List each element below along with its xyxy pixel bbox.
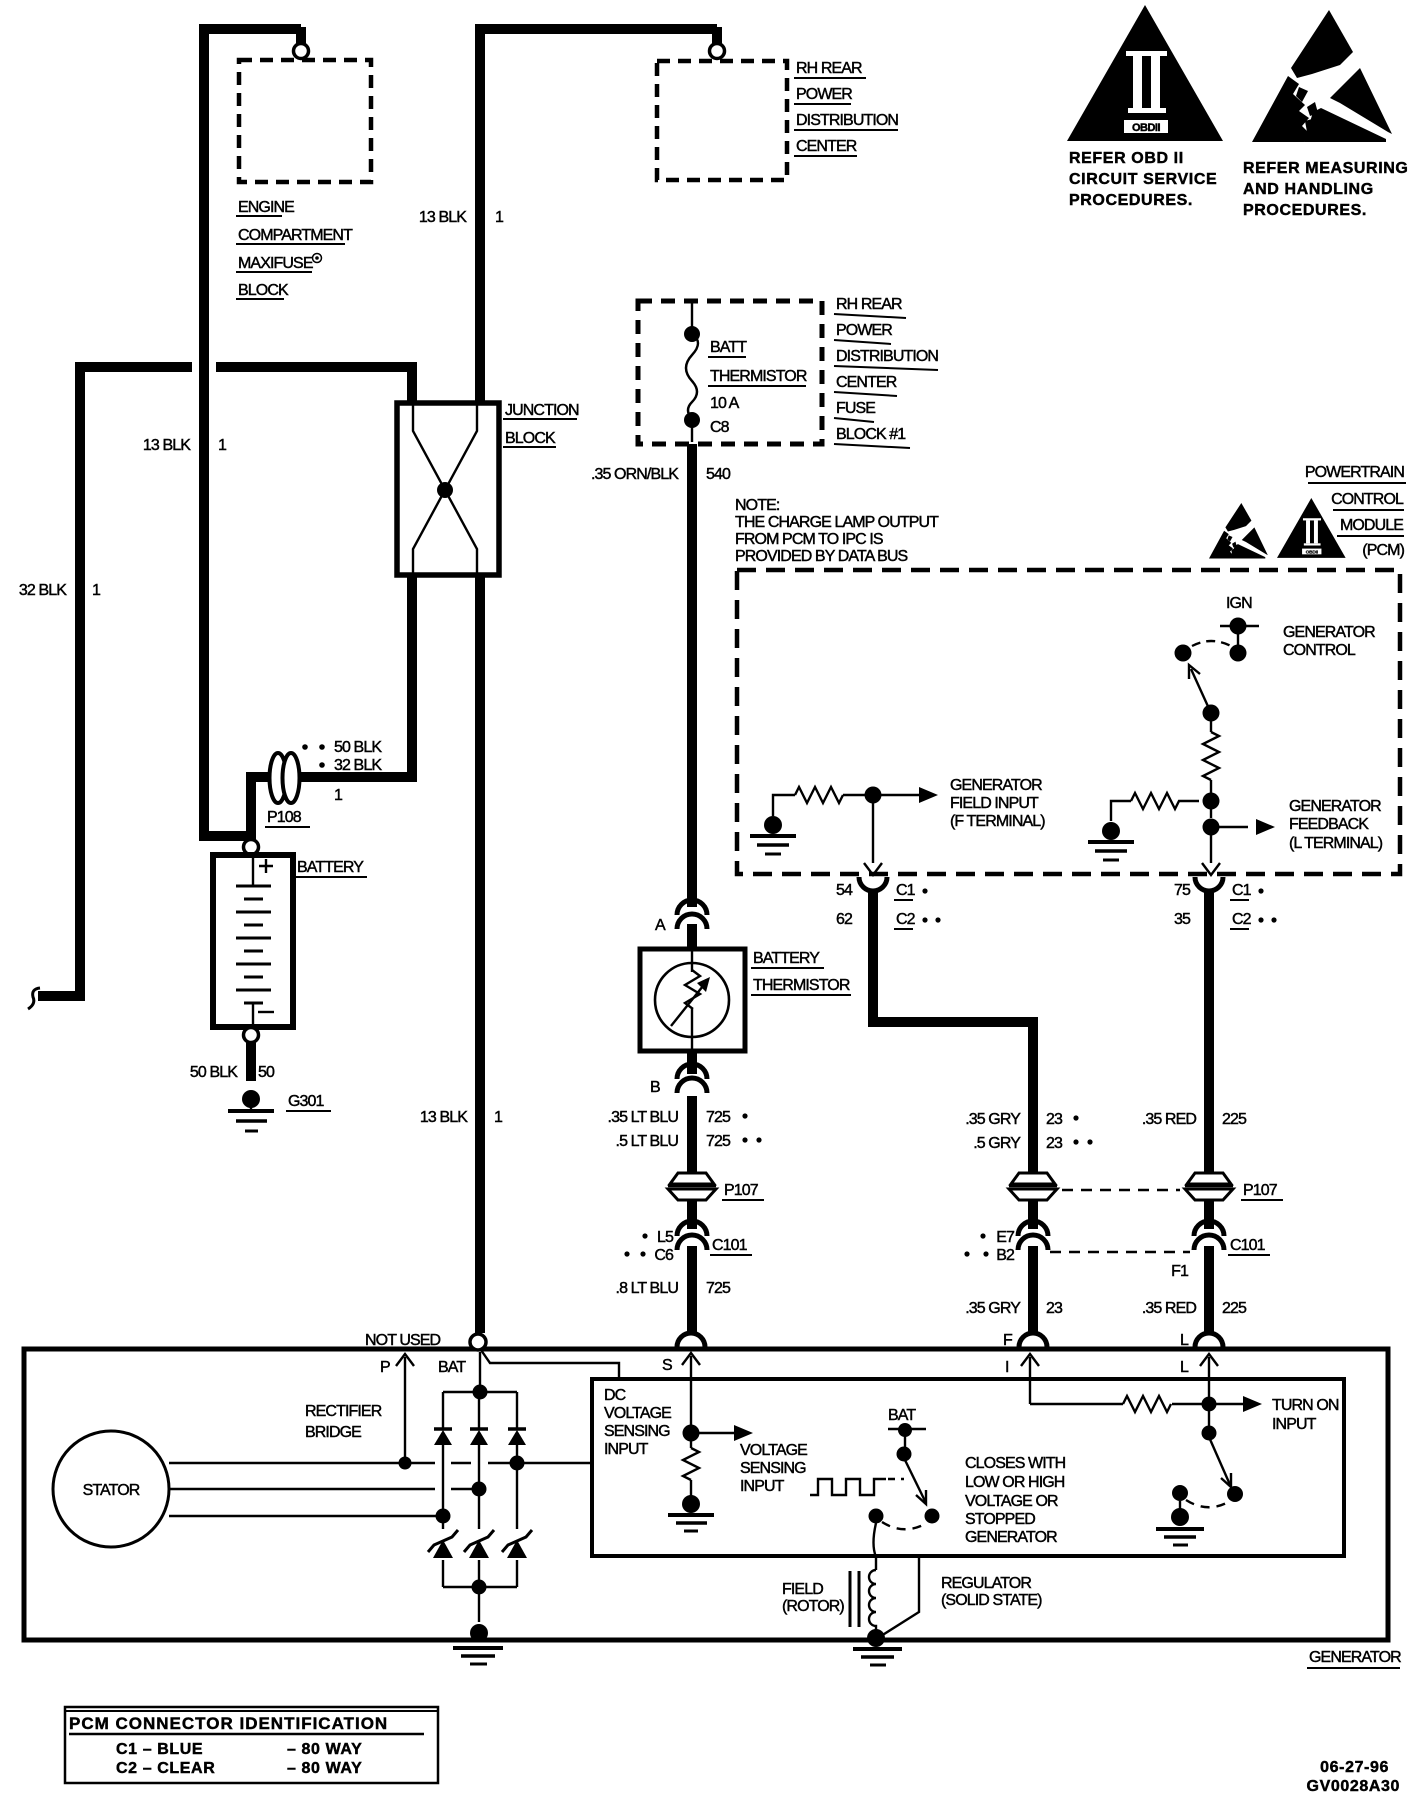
svg-text:FUSE: FUSE: [836, 400, 875, 417]
svg-text:DISTRIBUTION: DISTRIBUTION: [796, 112, 898, 129]
svg-text:C2: C2: [1232, 911, 1252, 928]
svg-text:725: 725: [706, 1133, 731, 1150]
svg-text:GENERATOR: GENERATOR: [950, 777, 1042, 794]
svg-text:BLOCK #1: BLOCK #1: [836, 426, 906, 443]
svg-text:JUNCTION: JUNCTION: [505, 402, 579, 419]
svg-text:C1 – BLUE: C1 – BLUE: [116, 1741, 203, 1758]
svg-text:CONTROL: CONTROL: [1283, 642, 1356, 659]
svg-text:225: 225: [1222, 1111, 1247, 1128]
svg-text:CONTROL: CONTROL: [1331, 491, 1404, 508]
svg-text:540: 540: [706, 466, 731, 483]
svg-text:NOT USED: NOT USED: [365, 1332, 441, 1349]
svg-text:13 BLK: 13 BLK: [420, 1109, 468, 1126]
svg-text:P107: P107: [724, 1182, 759, 1199]
svg-text:THERMISTOR: THERMISTOR: [710, 368, 807, 385]
svg-text:BATT: BATT: [710, 339, 747, 356]
svg-text:G301: G301: [288, 1093, 325, 1110]
svg-text:VOLTAGE: VOLTAGE: [740, 1442, 807, 1459]
svg-text:C1: C1: [1232, 882, 1252, 899]
svg-text:STATOR: STATOR: [83, 1482, 140, 1499]
svg-text:C8: C8: [710, 419, 730, 436]
svg-text:06-27-96: 06-27-96: [1320, 1759, 1389, 1776]
svg-text:1: 1: [334, 787, 343, 804]
svg-text:SENSING: SENSING: [740, 1460, 806, 1477]
svg-text:1: 1: [495, 209, 504, 226]
svg-text:(L TERMINAL): (L TERMINAL): [1289, 835, 1383, 852]
svg-text:B: B: [650, 1079, 660, 1096]
svg-text:CENTER: CENTER: [836, 374, 897, 391]
svg-text:32 BLK: 32 BLK: [19, 582, 67, 599]
svg-text:225: 225: [1222, 1300, 1247, 1317]
svg-text:BLOCK: BLOCK: [238, 282, 289, 299]
svg-text:THE CHARGE LAMP OUTPUT: THE CHARGE LAMP OUTPUT: [735, 514, 939, 531]
svg-text:62: 62: [836, 911, 853, 928]
svg-text:54: 54: [836, 882, 853, 899]
svg-text:FIELD: FIELD: [782, 1581, 823, 1598]
svg-text:GENERATOR: GENERATOR: [1289, 798, 1381, 815]
svg-text:INPUT: INPUT: [740, 1478, 785, 1495]
svg-text:I: I: [1005, 1359, 1009, 1376]
svg-text:BATTERY: BATTERY: [753, 950, 820, 967]
svg-text:PROCEDURES.: PROCEDURES.: [1243, 202, 1367, 219]
svg-text:MODULE: MODULE: [1340, 517, 1403, 534]
svg-text:BAT: BAT: [438, 1359, 466, 1376]
svg-text:INPUT: INPUT: [604, 1441, 649, 1458]
svg-text:PCM CONNECTOR IDENTIFICATION: PCM CONNECTOR IDENTIFICATION: [69, 1714, 388, 1733]
svg-text:FROM PCM TO IPC IS: FROM PCM TO IPC IS: [735, 531, 883, 548]
svg-text:(ROTOR): (ROTOR): [782, 1598, 844, 1615]
svg-text:.35 RED: .35 RED: [1142, 1300, 1197, 1317]
svg-text:A: A: [655, 917, 666, 934]
svg-text:MAXIFUSE: MAXIFUSE: [238, 255, 313, 272]
svg-text:50 BLK: 50 BLK: [334, 739, 382, 756]
svg-text:1: 1: [218, 437, 227, 454]
svg-text:L5: L5: [657, 1229, 674, 1246]
svg-text:.5 GRY: .5 GRY: [973, 1135, 1021, 1152]
svg-text:23: 23: [1046, 1300, 1063, 1317]
svg-text:(PCM): (PCM): [1362, 542, 1404, 559]
svg-text:.5 LT BLU: .5 LT BLU: [616, 1133, 679, 1150]
svg-text:CIRCUIT SERVICE: CIRCUIT SERVICE: [1069, 171, 1217, 188]
svg-text:GENERATOR: GENERATOR: [1283, 624, 1375, 641]
svg-text:POWER: POWER: [796, 86, 852, 103]
svg-text:50: 50: [258, 1064, 275, 1081]
svg-text:DC: DC: [604, 1387, 626, 1404]
svg-text:FIELD INPUT: FIELD INPUT: [950, 795, 1039, 812]
svg-text:– 80 WAY: – 80 WAY: [287, 1741, 362, 1758]
svg-text:C2 – CLEAR: C2 – CLEAR: [116, 1760, 215, 1777]
svg-text:IGN: IGN: [1226, 595, 1252, 612]
svg-text:35: 35: [1174, 911, 1191, 928]
svg-text:GENERATOR: GENERATOR: [965, 1529, 1057, 1546]
svg-text:L: L: [1180, 1332, 1189, 1349]
svg-text:75: 75: [1174, 882, 1191, 899]
svg-text:13 BLK: 13 BLK: [419, 209, 467, 226]
svg-text:REGULATOR: REGULATOR: [941, 1575, 1031, 1592]
svg-text:50 BLK: 50 BLK: [190, 1064, 238, 1081]
svg-text:23: 23: [1046, 1111, 1063, 1128]
svg-text:.35 GRY: .35 GRY: [965, 1300, 1021, 1317]
svg-text:TURN ON: TURN ON: [1272, 1397, 1339, 1414]
svg-text:GV0028A30: GV0028A30: [1307, 1778, 1400, 1795]
svg-text:POWER: POWER: [836, 322, 892, 339]
svg-text:AND HANDLING: AND HANDLING: [1243, 181, 1374, 198]
svg-text:E7: E7: [996, 1229, 1015, 1246]
svg-text:BAT: BAT: [888, 1407, 916, 1424]
svg-text:– 80 WAY: – 80 WAY: [287, 1760, 362, 1777]
svg-text:NOTE:: NOTE:: [735, 497, 779, 514]
svg-text:RECTIFIER: RECTIFIER: [305, 1403, 382, 1420]
svg-text:ENGINE: ENGINE: [238, 199, 294, 216]
svg-text:COMPARTMENT: COMPARTMENT: [238, 227, 353, 244]
svg-text:(F TERMINAL): (F TERMINAL): [950, 813, 1045, 830]
svg-text:C1: C1: [896, 882, 916, 899]
svg-text:GENERATOR: GENERATOR: [1309, 1649, 1401, 1666]
svg-text:C101: C101: [712, 1237, 748, 1254]
svg-text:F: F: [1003, 1332, 1013, 1349]
svg-text:C2: C2: [896, 911, 916, 928]
svg-text:F1: F1: [1171, 1263, 1189, 1280]
svg-text:10 A: 10 A: [710, 395, 740, 412]
svg-text:P: P: [380, 1359, 390, 1376]
svg-text:FEEDBACK: FEEDBACK: [1289, 816, 1369, 833]
svg-text:B2: B2: [996, 1247, 1015, 1264]
svg-text:P107: P107: [1243, 1182, 1278, 1199]
svg-text:DISTRIBUTION: DISTRIBUTION: [836, 348, 938, 365]
svg-text:(SOLID STATE): (SOLID STATE): [941, 1592, 1042, 1609]
svg-text:CENTER: CENTER: [796, 138, 857, 155]
svg-text:PROCEDURES.: PROCEDURES.: [1069, 192, 1193, 209]
svg-text:RH REAR: RH REAR: [796, 60, 862, 77]
svg-text:LOW OR HIGH: LOW OR HIGH: [965, 1474, 1065, 1491]
svg-text:BLOCK: BLOCK: [505, 430, 556, 447]
svg-text:S: S: [662, 1357, 672, 1374]
svg-text:.35 ORN/BLK: .35 ORN/BLK: [591, 466, 679, 483]
svg-text:32 BLK: 32 BLK: [334, 757, 382, 774]
svg-text:SENSING: SENSING: [604, 1423, 670, 1440]
svg-text:725: 725: [706, 1280, 731, 1297]
svg-text:.35 RED: .35 RED: [1142, 1111, 1197, 1128]
svg-text:CLOSES WITH: CLOSES WITH: [965, 1455, 1066, 1472]
svg-text:C101: C101: [1230, 1237, 1266, 1254]
svg-text:RH REAR: RH REAR: [836, 296, 902, 313]
svg-text:.35 GRY: .35 GRY: [965, 1111, 1021, 1128]
svg-text:THERMISTOR: THERMISTOR: [753, 977, 850, 994]
svg-text:1: 1: [494, 1109, 503, 1126]
svg-text:L: L: [1180, 1359, 1189, 1376]
svg-text:POWERTRAIN: POWERTRAIN: [1305, 464, 1405, 481]
svg-text:13 BLK: 13 BLK: [143, 437, 191, 454]
svg-text:725: 725: [706, 1109, 731, 1126]
svg-text:C6: C6: [654, 1247, 674, 1264]
svg-text:.8 LT BLU: .8 LT BLU: [616, 1280, 679, 1297]
svg-text:1: 1: [92, 582, 101, 599]
svg-text:REFER OBD II: REFER OBD II: [1069, 150, 1184, 167]
svg-text:.35 LT BLU: .35 LT BLU: [608, 1109, 679, 1126]
svg-text:BATTERY: BATTERY: [297, 859, 364, 876]
svg-text:INPUT: INPUT: [1272, 1416, 1317, 1433]
svg-text:23: 23: [1046, 1135, 1063, 1152]
svg-text:REFER MEASURING: REFER MEASURING: [1243, 160, 1408, 177]
svg-text:P108: P108: [267, 809, 302, 826]
svg-text:VOLTAGE: VOLTAGE: [604, 1405, 671, 1422]
svg-text:VOLTAGE OR: VOLTAGE OR: [965, 1493, 1058, 1510]
svg-text:PROVIDED BY DATA BUS: PROVIDED BY DATA BUS: [735, 548, 908, 565]
svg-text:BRIDGE: BRIDGE: [305, 1424, 361, 1441]
svg-text:STOPPED: STOPPED: [965, 1511, 1035, 1528]
